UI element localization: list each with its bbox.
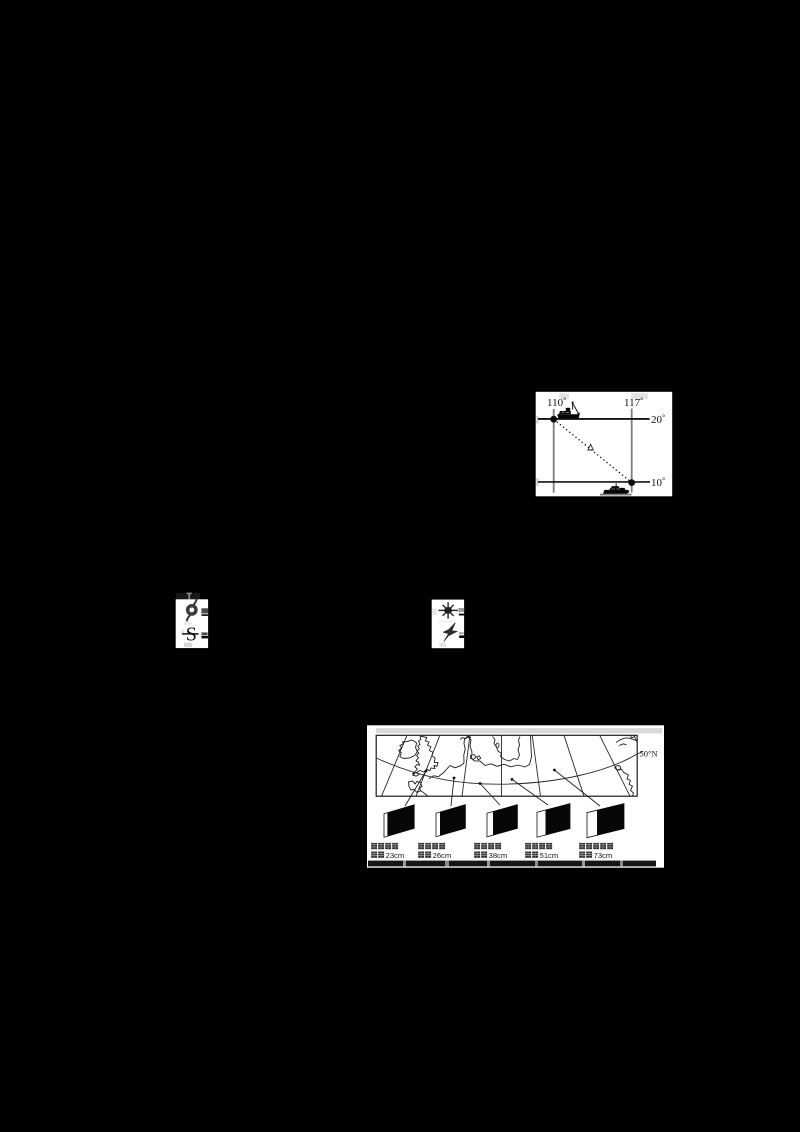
gray header bar — [376, 728, 662, 733]
estonia arc — [619, 744, 627, 746]
parallel 20 line — [538, 418, 650, 420]
Sweden west and south coast — [493, 737, 521, 762]
label 4 value: wall 51cm — [525, 851, 558, 860]
dark cropped strip above — [176, 593, 200, 600]
left tick bottom — [536, 478, 538, 486]
line through S — [182, 633, 198, 635]
figure 3: Europe wall-thickness map — [367, 725, 665, 868]
light artifact strip — [184, 622, 192, 626]
ship lower gray wake — [600, 494, 632, 496]
Biscay coast exit — [421, 791, 428, 797]
gray block right of sun — [458, 608, 464, 612]
svg-text:50°N: 50°N — [640, 748, 658, 758]
Danish island b — [477, 756, 481, 760]
wall slab 5 — [587, 804, 624, 838]
light block left of sun — [432, 608, 437, 615]
light artifact left — [181, 630, 184, 635]
dashed route line — [554, 419, 632, 482]
lightning bolt — [443, 623, 457, 642]
white panel — [176, 599, 208, 648]
meridian g — [600, 735, 630, 796]
channel continental coast — [429, 763, 464, 779]
light block bottom — [439, 643, 445, 647]
pointer line 2 — [451, 778, 454, 806]
pointer line 4 — [512, 779, 548, 805]
Swedish lake — [496, 743, 499, 748]
gray T glyph remnant — [187, 593, 192, 600]
black bar right of typhoon — [201, 614, 209, 616]
sun symbol — [438, 602, 458, 619]
meridian c — [462, 735, 470, 796]
sample dot 1 — [425, 770, 428, 773]
gray block right of bolt — [459, 632, 464, 634]
svg-text:38cm: 38cm — [489, 851, 508, 860]
white panel — [432, 600, 464, 649]
label 5 value: wall 73cm — [579, 851, 612, 860]
parallel 10 line — [538, 481, 650, 483]
right edge blob — [615, 766, 620, 770]
label 5 name: Russia west — [579, 843, 613, 849]
label 3 name: Germany east — [474, 843, 501, 849]
meridian b — [416, 735, 440, 796]
caption smudge bar — [368, 861, 656, 867]
label 1 name: UK south — [371, 843, 398, 849]
ship lower — [603, 483, 629, 494]
Jutland Denmark coast — [464, 737, 480, 764]
Baltic german polish coast — [480, 735, 532, 767]
svg-text:51cm: 51cm — [540, 851, 559, 860]
svg-text:26cm: 26cm — [433, 851, 452, 860]
artifact block above 110 — [559, 393, 569, 399]
map frame — [376, 735, 637, 796]
sample dot 4 — [511, 778, 514, 781]
black bar right of bolt — [459, 635, 465, 638]
figure 2a: typhoon and front symbol panel — [175, 592, 209, 649]
Ireland coast — [399, 740, 418, 758]
left tick top — [536, 416, 538, 424]
meridian 117 line — [631, 409, 633, 493]
gray block right of S — [201, 632, 207, 635]
figure 2b: sun and lightning symbol panel — [431, 599, 465, 650]
meridian h — [634, 735, 637, 742]
wall slab 3 — [487, 805, 517, 837]
right edge lower coast — [615, 768, 634, 797]
meridian a — [382, 735, 408, 796]
label 2 name: Germany west — [418, 843, 445, 849]
node dot at 110,20 — [550, 416, 557, 423]
south Norway coast — [460, 736, 471, 739]
black bar right of S — [201, 636, 209, 638]
pointer line 1 — [405, 771, 426, 806]
label 1 value: wall 23cm — [371, 851, 404, 860]
wall slab 4 — [537, 804, 570, 838]
pointer line 5 — [554, 770, 600, 806]
Great Britain coast — [413, 736, 439, 776]
coastlines — [399, 735, 638, 796]
Danish island a — [471, 755, 477, 760]
meridian e — [532, 735, 540, 796]
light artifact bottom — [184, 643, 192, 647]
label 4 name: Poland central — [525, 843, 552, 849]
label 2 value: wall 26cm — [418, 851, 451, 860]
artifact block above 117 — [631, 393, 648, 399]
label A triangle — [588, 444, 594, 450]
figure 1: latitude/longitude ship diagram — [535, 391, 673, 497]
black bar right of sun — [459, 614, 465, 616]
ship lower window slits — [612, 488, 621, 490]
typhoon symbol — [186, 599, 198, 620]
meridian f — [564, 735, 584, 796]
parallel 50N curve — [376, 754, 637, 784]
corner islands — [631, 735, 635, 738]
ship upper — [557, 401, 580, 419]
white panel — [367, 725, 664, 867]
label 3 value: wall 38cm — [474, 851, 507, 860]
meridian 110 line — [553, 409, 555, 493]
ship upper window slits — [562, 412, 570, 414]
parallel tail outside — [637, 752, 643, 755]
wall slab 2 — [436, 805, 465, 837]
Brittany France coast — [409, 781, 423, 792]
sample dot 3 — [479, 782, 482, 785]
sample dot 5 — [553, 769, 556, 772]
svg-text:23cm: 23cm — [386, 851, 405, 860]
gulf of riga coast — [616, 738, 637, 743]
gray block right of typhoon — [201, 608, 208, 613]
node dot at 117,10 — [628, 479, 635, 486]
svg-text:73cm: 73cm — [594, 851, 613, 860]
wall slab 1 — [384, 805, 414, 837]
light strip under sun — [438, 621, 455, 623]
white panel — [536, 392, 673, 497]
pointer line 3 — [480, 784, 500, 806]
sample dot 2 — [453, 777, 456, 780]
meridian d central — [501, 735, 503, 796]
